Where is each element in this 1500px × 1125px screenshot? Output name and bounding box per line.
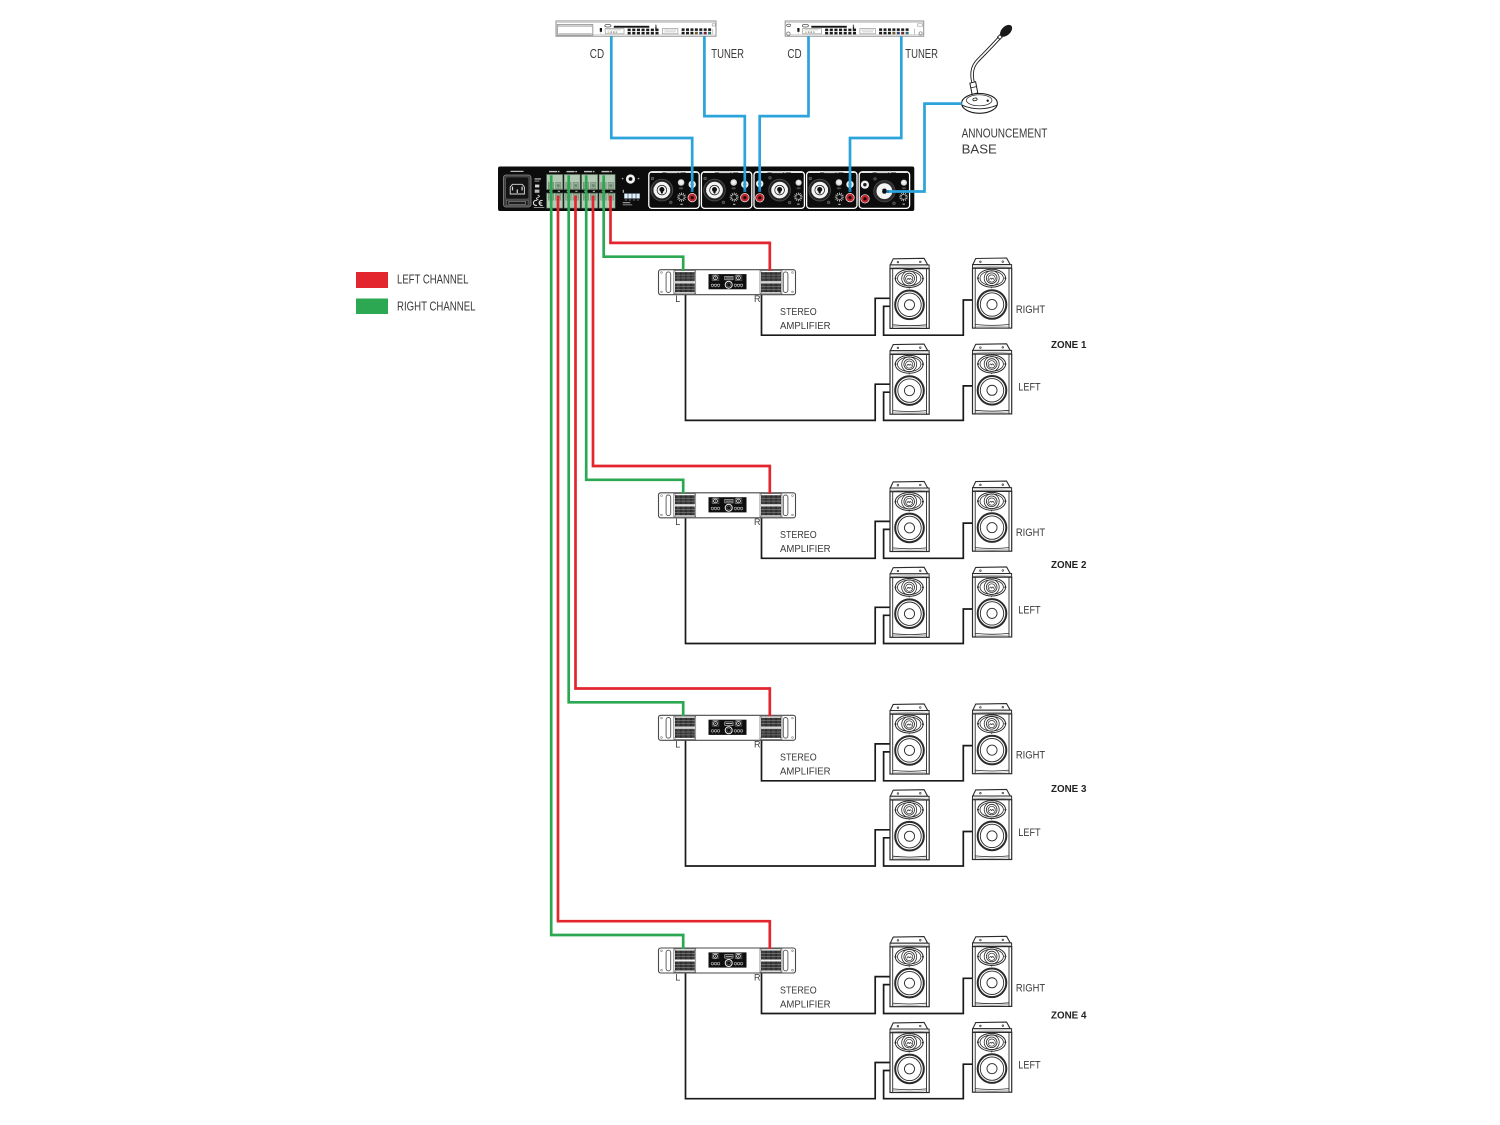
svg-text:ZONE 1: ZONE 1 bbox=[1051, 339, 1087, 351]
svg-text:LEFT: LEFT bbox=[1018, 827, 1041, 839]
svg-text:STEREO: STEREO bbox=[780, 985, 817, 996]
svg-text:ZONE 2: ZONE 2 bbox=[1051, 559, 1087, 571]
svg-text:L: L bbox=[675, 740, 680, 750]
svg-text:R: R bbox=[754, 294, 761, 304]
svg-text:BASE: BASE bbox=[962, 141, 997, 156]
svg-text:RIGHT: RIGHT bbox=[1016, 750, 1046, 762]
svg-text:CD: CD bbox=[590, 46, 604, 61]
svg-text:STEREO: STEREO bbox=[780, 530, 817, 541]
svg-text:LEFT: LEFT bbox=[1018, 381, 1041, 393]
svg-text:STEREO: STEREO bbox=[780, 307, 817, 318]
svg-text:R: R bbox=[754, 740, 761, 750]
svg-text:LEFT: LEFT bbox=[1018, 604, 1041, 616]
svg-text:L: L bbox=[675, 972, 680, 982]
svg-text:ANNOUNCEMENT: ANNOUNCEMENT bbox=[962, 125, 1048, 140]
svg-text:RIGHT: RIGHT bbox=[1016, 304, 1046, 316]
svg-text:TUNER: TUNER bbox=[905, 46, 938, 61]
svg-text:L: L bbox=[675, 517, 680, 527]
svg-text:RIGHT: RIGHT bbox=[1016, 527, 1046, 539]
svg-text:L: L bbox=[675, 294, 680, 304]
svg-text:AMPLIFIER: AMPLIFIER bbox=[780, 321, 831, 332]
svg-text:STEREO: STEREO bbox=[780, 753, 817, 764]
svg-text:R: R bbox=[754, 972, 761, 982]
svg-text:LEFT: LEFT bbox=[1018, 1060, 1041, 1072]
svg-text:AMPLIFIER: AMPLIFIER bbox=[780, 544, 831, 555]
svg-text:ZONE 4: ZONE 4 bbox=[1051, 1010, 1087, 1022]
svg-text:LEFT CHANNEL: LEFT CHANNEL bbox=[397, 273, 469, 287]
svg-text:ZONE 3: ZONE 3 bbox=[1051, 783, 1087, 795]
svg-text:CD: CD bbox=[787, 46, 801, 61]
svg-text:RIGHT CHANNEL: RIGHT CHANNEL bbox=[397, 300, 476, 314]
svg-text:AMPLIFIER: AMPLIFIER bbox=[780, 999, 831, 1010]
svg-text:TUNER: TUNER bbox=[711, 46, 744, 61]
svg-text:R: R bbox=[754, 517, 761, 527]
svg-text:RIGHT: RIGHT bbox=[1016, 982, 1046, 994]
svg-text:AMPLIFIER: AMPLIFIER bbox=[780, 767, 831, 778]
